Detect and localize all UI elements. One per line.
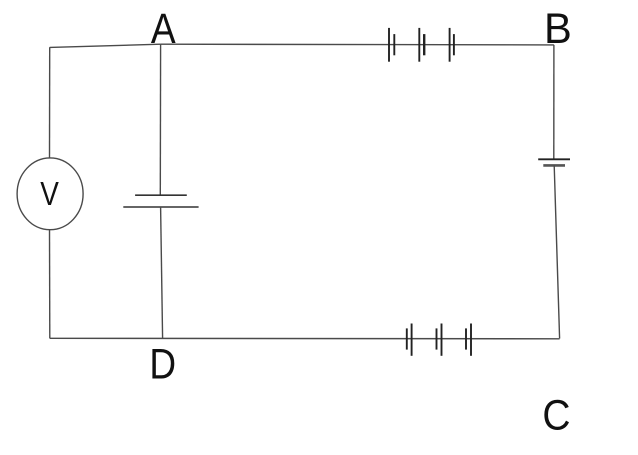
wire: top segment (node A to node B) [161, 43, 554, 46]
svg-text:B: B [544, 5, 572, 53]
wire: top-left segment (corner to node A) [50, 44, 161, 47]
wire: right vertical lower segment (capacitor to corner C) [554, 165, 559, 338]
capacitor on B–C branch: short thick plate [543, 164, 565, 167]
wire: A–D branch lower segment [161, 207, 163, 339]
capacitor 3 of bottom series group (D–C branch) [466, 324, 471, 356]
node D [149, 341, 176, 389]
capacitor on A–D branch: top plate [135, 194, 187, 196]
node B [544, 5, 572, 53]
svg-text:A: A [151, 5, 176, 53]
capacitor on A–D branch: bottom plate [123, 206, 198, 208]
capacitor 1 of bottom series group (D–C branch) [407, 324, 412, 356]
svg-text:D: D [149, 341, 176, 389]
svg-text:V: V [40, 175, 59, 212]
capacitor 3 of top series group (A–B branch) [450, 28, 454, 62]
node C [542, 391, 570, 439]
wire: left vertical upper segment [49, 47, 51, 158]
capacitor on B–C branch: long plate [538, 158, 570, 160]
wire: A–D branch upper segment [159, 44, 161, 195]
voltmeter V [17, 158, 83, 230]
node A [151, 5, 176, 53]
wire: bottom segment (corner D to corner C) [50, 337, 560, 340]
wire: left vertical lower segment [49, 230, 51, 339]
wire: right vertical upper segment (B to capacitor) [553, 45, 555, 159]
capacitor 1 of top series group (A–B branch) [389, 28, 394, 62]
svg-text:C: C [542, 391, 570, 439]
capacitor 2 of top series group (A–B branch) [419, 28, 424, 62]
capacitor 2 of bottom series group (D–C branch) [437, 324, 442, 356]
